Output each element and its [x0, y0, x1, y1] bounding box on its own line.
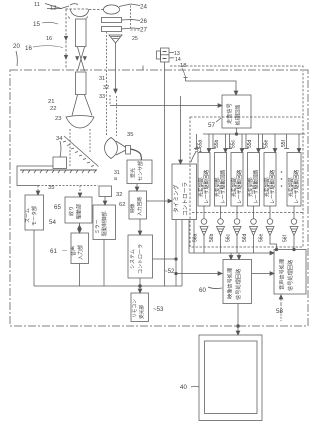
- svg-text:33: 33: [99, 94, 105, 100]
- svg-text:受光: 受光: [130, 168, 137, 178]
- svg-text:56b: 56b: [209, 233, 215, 242]
- svg-text:レーザ駆動回路: レーザ駆動回路: [293, 170, 300, 204]
- svg-text:—: —: [62, 248, 67, 254]
- svg-text:16: 16: [46, 36, 52, 42]
- svg-text:信号処理回路: 信号処理回路: [234, 268, 242, 300]
- svg-text:a: a: [114, 176, 117, 182]
- svg-text:~53: ~53: [153, 306, 164, 313]
- svg-text:60: 60: [199, 287, 206, 294]
- svg-text:音声: 音声: [70, 246, 77, 256]
- svg-text:コントローラ: コントローラ: [138, 244, 144, 274]
- svg-text:光変調部: 光変調部: [288, 177, 295, 197]
- svg-text:レーザ駆動回路: レーザ駆動回路: [203, 170, 210, 204]
- svg-text:56d: 56d: [242, 233, 248, 242]
- svg-text:55c: 55c: [231, 139, 237, 148]
- svg-text:駆動制御部: 駆動制御部: [101, 211, 108, 236]
- svg-text:32: 32: [103, 85, 109, 91]
- svg-text:34: 34: [56, 136, 63, 142]
- svg-text:映像信号処理: 映像信号処理: [226, 267, 234, 299]
- svg-text:61: 61: [50, 248, 57, 255]
- svg-text:56c: 56c: [226, 233, 232, 242]
- svg-text:絞り: 絞り: [68, 206, 75, 216]
- svg-text:リモコン: リモコン: [132, 299, 137, 318]
- svg-text:55b: 55b: [214, 139, 220, 148]
- svg-text:ズーム: ズーム: [24, 208, 31, 223]
- svg-text:レーザ駆動回路: レーザ駆動回路: [236, 170, 243, 204]
- svg-text:56e: 56e: [259, 233, 265, 242]
- svg-text:35: 35: [127, 132, 133, 138]
- svg-text:57: 57: [208, 122, 215, 129]
- svg-text:55a: 55a: [198, 139, 204, 148]
- svg-text:11: 11: [34, 2, 40, 8]
- svg-text:25: 25: [132, 36, 138, 42]
- svg-text:16: 16: [25, 45, 32, 52]
- svg-text:56a: 56a: [193, 233, 199, 242]
- svg-text:15: 15: [33, 21, 40, 28]
- svg-text:駆動部: 駆動部: [76, 204, 83, 219]
- svg-text:レーザ駆動回路: レーザ駆動回路: [252, 170, 259, 204]
- svg-text:21: 21: [48, 99, 54, 105]
- svg-text:55d: 55d: [247, 139, 253, 148]
- svg-text:18: 18: [180, 63, 186, 69]
- svg-text:26: 26: [140, 18, 147, 25]
- svg-text:入力回路: 入力回路: [136, 197, 143, 216]
- svg-text:入力部: 入力部: [77, 245, 84, 260]
- svg-text:光変調部: 光変調部: [214, 177, 221, 197]
- svg-text:光変調部: 光変調部: [247, 177, 254, 197]
- svg-text:タイミング: タイミング: [172, 184, 180, 213]
- svg-text:センサ部: センサ部: [137, 161, 144, 181]
- svg-text:コントローラ: コントローラ: [182, 182, 189, 216]
- svg-text:54: 54: [49, 219, 56, 226]
- svg-text:レーザ駆動回路: レーザ駆動回路: [269, 170, 276, 204]
- svg-text:レーザ駆動回路: レーザ駆動回路: [219, 170, 226, 204]
- svg-text:40: 40: [180, 384, 187, 391]
- svg-text:システム: システム: [130, 249, 136, 269]
- svg-text:~52: ~52: [164, 268, 175, 275]
- svg-text:22: 22: [50, 106, 56, 112]
- svg-text:23: 23: [55, 116, 61, 122]
- svg-text:光変調部: 光変調部: [231, 177, 238, 197]
- svg-text:24: 24: [140, 4, 147, 11]
- svg-text:58: 58: [276, 308, 283, 315]
- svg-text:ミラー: ミラー: [95, 219, 101, 234]
- svg-text:20: 20: [13, 43, 20, 50]
- svg-text:走査信号: 走査信号: [225, 103, 233, 124]
- svg-text:65: 65: [54, 204, 61, 211]
- svg-text:56f: 56f: [283, 234, 289, 242]
- svg-text:55e: 55e: [264, 139, 270, 148]
- svg-text:31: 31: [99, 76, 105, 82]
- svg-text:モータ部: モータ部: [31, 206, 38, 226]
- svg-text:55f: 55f: [281, 139, 287, 147]
- svg-text:12: 12: [50, 6, 56, 12]
- svg-text:27: 27: [140, 27, 147, 34]
- svg-text:処理回路: 処理回路: [234, 104, 242, 126]
- svg-text:音声信号処理: 音声信号処理: [278, 258, 286, 290]
- svg-text:32: 32: [116, 192, 122, 198]
- svg-text:信号処理回路: 信号処理回路: [286, 259, 294, 291]
- svg-text:光変調部: 光変調部: [198, 177, 205, 197]
- svg-text:35: 35: [48, 185, 54, 191]
- svg-text:光変調部: 光変調部: [264, 177, 271, 197]
- svg-text:受光部: 受光部: [138, 305, 145, 319]
- svg-text:62: 62: [119, 202, 125, 208]
- svg-text:映像: 映像: [129, 203, 136, 213]
